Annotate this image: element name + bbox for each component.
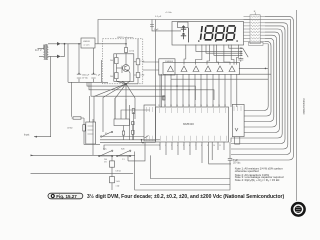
svg-text:35 Vdc: 35 Vdc [233, 162, 241, 165]
svg-text:1 kΩ: 1 kΩ [141, 75, 145, 77]
svg-text:S2a: S2a [103, 149, 107, 151]
svg-text:1 kΩ: 1 kΩ [116, 186, 120, 188]
svg-text:instrumentation: instrumentation [302, 99, 306, 115]
svg-text:1500 μF: 1500 μF [82, 75, 90, 77]
svg-text:R: R [254, 11, 256, 13]
svg-text:Fig. 15.27: Fig. 15.27 [56, 194, 77, 199]
svg-text:1 μF: 1 μF [96, 75, 101, 77]
svg-text:LM309: LM309 [83, 41, 90, 43]
svg-text:2: 2 [165, 145, 166, 147]
svg-text:117 V: 117 V [35, 48, 42, 52]
svg-text:mV: mV [104, 162, 107, 164]
svg-text:14: 14 [212, 105, 214, 107]
svg-text:21: 21 [170, 105, 172, 107]
svg-text:17: 17 [194, 105, 196, 107]
svg-text:4: 4 [177, 145, 178, 147]
svg-text:9: 9 [207, 145, 208, 147]
svg-text:S2b: S2b [121, 149, 125, 151]
svg-text:S1a: S1a [105, 133, 108, 135]
svg-text:10 MΩ: 10 MΩ [67, 128, 73, 130]
svg-text:20: 20 [176, 105, 178, 107]
svg-text:18: 18 [188, 105, 190, 107]
svg-text:5: 5 [183, 145, 184, 147]
svg-text:or sim: or sim [84, 44, 90, 47]
svg-text:0.1 μF: 0.1 μF [155, 16, 162, 18]
svg-text:Note 4: R₁R₂/(R₁ + R₂) = R₃ ≈: Note 4: R₁R₂/(R₁ + R₂) = R₃ ≈ 15 kΩ [235, 178, 280, 182]
svg-text:11: 11 [219, 145, 221, 147]
svg-text:LM113 reference: LM113 reference [117, 36, 134, 39]
svg-text:MM5330: MM5330 [183, 122, 194, 126]
svg-text:1.2 kΩ: 1.2 kΩ [129, 51, 135, 53]
svg-text:8: 8 [201, 145, 202, 147]
svg-text:22: 22 [164, 105, 166, 107]
svg-text:1: 1 [159, 145, 160, 147]
svg-text:3½ digit DVM, Four decade; ±0.: 3½ digit DVM, Four decade; ±0.2, ±0.2, ±… [87, 193, 284, 200]
svg-text:12: 12 [224, 105, 226, 107]
svg-text:15: 15 [206, 105, 208, 107]
svg-text:200: 200 [110, 60, 113, 62]
svg-text:1 kΩ: 1 kΩ [116, 181, 121, 183]
svg-text:15 Vdc: 15 Vdc [82, 77, 88, 79]
svg-text:Input: Input [24, 134, 30, 137]
svg-text:3: 3 [171, 145, 172, 147]
svg-text:7: 7 [195, 145, 196, 147]
svg-text:10: 10 [213, 145, 215, 147]
svg-text:23: 23 [158, 105, 160, 107]
svg-text:6.8 kΩ: 6.8 kΩ [116, 171, 122, 173]
svg-text:2 kΩ: 2 kΩ [141, 61, 145, 63]
svg-text:+5 Vdc: +5 Vdc [165, 12, 173, 14]
svg-text:DS8864: DS8864 [165, 61, 174, 63]
svg-text:19: 19 [182, 105, 184, 107]
svg-text:6: 6 [189, 145, 190, 147]
svg-text:13: 13 [218, 105, 220, 107]
svg-text:2 V: 2 V [122, 159, 125, 161]
svg-text:200: 200 [110, 76, 113, 78]
svg-text:16: 16 [200, 105, 202, 107]
svg-text:1 μF: 1 μF [154, 29, 159, 31]
